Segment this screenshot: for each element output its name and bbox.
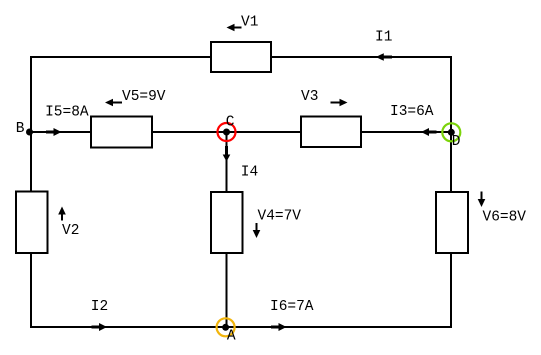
resistor V6 xyxy=(436,192,468,253)
node B xyxy=(26,129,33,136)
svg-text:I1: I1 xyxy=(375,30,392,46)
svg-text:V2: V2 xyxy=(62,223,79,239)
arrow V3 (points right) xyxy=(331,99,348,107)
arrow I5 (on wire B to V5, points right) xyxy=(46,128,62,136)
arrow I3 (on wire D to V3, points left) xyxy=(421,128,437,136)
node A xyxy=(217,318,235,336)
svg-text:D: D xyxy=(452,134,461,150)
svg-text:A: A xyxy=(227,329,236,345)
svg-text:V5=9V: V5=9V xyxy=(122,89,166,105)
svg-text:V1: V1 xyxy=(241,15,258,31)
resistor V5 xyxy=(91,117,152,148)
svg-text:I2: I2 xyxy=(91,299,108,315)
node D xyxy=(442,123,460,141)
resistor V2 xyxy=(16,192,48,254)
arrow V1 (points left) xyxy=(227,24,242,32)
wire middle horizontal B-D xyxy=(31,131,451,133)
arrow V4 (points down) xyxy=(253,223,261,238)
wire top edge xyxy=(31,56,451,58)
arrow I2 (on bottom wire, points right) xyxy=(92,323,108,331)
arrow I1 (on top wire, points left) xyxy=(376,53,392,61)
svg-text:I3=6A: I3=6A xyxy=(390,104,434,120)
wire bottom edge xyxy=(31,326,451,328)
node C xyxy=(218,123,236,141)
svg-text:V6=8V: V6=8V xyxy=(483,210,527,226)
resistor V3 xyxy=(301,117,361,148)
svg-text:I6=7A: I6=7A xyxy=(270,299,314,315)
wire right edge xyxy=(450,56,452,328)
resistor V4 xyxy=(211,192,243,253)
svg-text:C: C xyxy=(226,115,235,131)
wire left edge xyxy=(30,56,32,328)
svg-text:I4: I4 xyxy=(241,165,258,181)
svg-text:V3: V3 xyxy=(301,89,318,105)
arrow I6 (on bottom wire, points right) xyxy=(271,323,287,331)
arrow V2 (points up) xyxy=(58,207,66,221)
svg-text:V4=7V: V4=7V xyxy=(258,209,302,225)
arrow V6 (points down) xyxy=(478,192,486,208)
resistor V1 xyxy=(211,42,271,72)
arrow V5 (points left) xyxy=(105,99,122,107)
svg-text:I5=8A: I5=8A xyxy=(45,105,89,121)
svg-text:B: B xyxy=(16,121,25,137)
arrow I4 (on middle vertical wire, points down) xyxy=(223,146,231,162)
wire middle vertical C-A xyxy=(226,132,228,327)
